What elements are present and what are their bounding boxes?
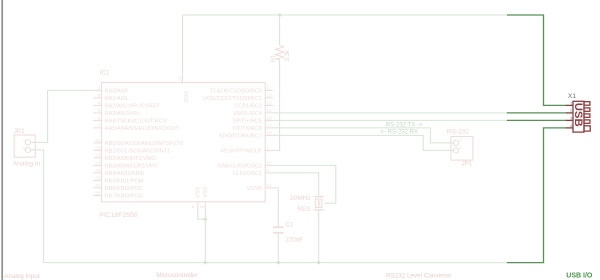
svg-text:3: 3 (570, 116, 573, 121)
wire ground rail (faded) (44, 262, 508, 264)
svg-text:PIC18F2550: PIC18F2550 (99, 212, 137, 219)
junction R1 top (278, 13, 281, 16)
connector JP1 body (451, 137, 473, 161)
wire VDD top rail (faded) (183, 14, 508, 16)
svg-text:22: 22 (95, 145, 101, 150)
svg-text:RS232 Level Converter: RS232 Level Converter (386, 273, 451, 280)
IC1 VSS pin 19 stub (bottom) (204, 202, 206, 210)
svg-text:19: 19 (199, 204, 205, 209)
svg-text:<- RS-232 RX: <- RS-232 RX (380, 130, 418, 136)
wire RC4 / D- (faded) (273, 112, 508, 114)
svg-text:VSS: VSS (203, 186, 209, 197)
X1 shield teeth (584, 102, 590, 106)
svg-text:USB: USB (572, 103, 584, 127)
X1 pin numbers (570, 101, 573, 128)
svg-text:12: 12 (266, 93, 272, 98)
svg-text:T13CKI/T1OSO/RC0: T13CKI/T1OSO/RC0 (210, 88, 262, 94)
svg-text:RA1/AN1: RA1/AN1 (105, 96, 128, 102)
svg-text:VM/D-/RC4: VM/D-/RC4 (233, 111, 262, 117)
X1 pin stubs (566, 104, 573, 106)
svg-text:8: 8 (192, 204, 195, 209)
svg-text:14: 14 (266, 183, 272, 188)
wire JP2 pin2 to ground rail (31, 150, 44, 263)
svg-text:RB3/AN9/CCP2/VPO: RB3/AN9/CCP2/VPO (105, 163, 159, 169)
svg-text:2: 2 (459, 138, 462, 143)
svg-text:R1: R1 (271, 54, 277, 62)
svg-text:RES: RES (297, 206, 311, 213)
IC1 VDD pin 20 stub (top) (182, 75, 184, 83)
svg-text:RB5/KBI1/PGM: RB5/KBI1/PGM (105, 178, 144, 184)
JP1 pin 2 pad circle (454, 140, 459, 145)
wire IC1 VSS pins to ground rail (198, 209, 206, 219)
svg-text:18: 18 (266, 130, 272, 135)
junction VSS to ground rail (204, 261, 207, 264)
svg-text:5: 5 (98, 108, 101, 113)
svg-text:1: 1 (266, 145, 269, 150)
svg-text:28: 28 (95, 190, 101, 195)
IC1 pin numbers (95, 76, 272, 209)
wire R1 to IC1 MCLR pin1 (273, 60, 280, 151)
window border left edge (1, 0, 3, 280)
resistor R1 zigzag (276, 45, 284, 60)
svg-text:RB7/KBI3/PGD: RB7/KBI3/PGD (105, 193, 143, 199)
svg-text:4: 4 (570, 123, 573, 128)
IC1 left pin stubs (pins 2-7, 21-28) (94, 90, 102, 195)
svg-text:RA3/AN3/VR+: RA3/AN3/VR+ (105, 111, 141, 117)
svg-text:VDD: VDD (182, 91, 188, 103)
svg-text:VUSB: VUSB (247, 186, 263, 192)
svg-text:9: 9 (266, 168, 269, 173)
svg-text:RB6/KBI2/PGC: RB6/KBI2/PGC (105, 186, 143, 192)
svg-text:RA2/AN2/VR-/CVREF: RA2/AN2/VR-/CVREF (105, 103, 161, 109)
svg-text:IC1: IC1 (100, 70, 110, 77)
svg-text:17: 17 (266, 123, 272, 128)
svg-text:3: 3 (98, 93, 101, 98)
junction resonator ground (317, 261, 320, 264)
op IC1 PIC18F2550 body (101, 83, 265, 202)
wire IC1 VUSB pin14 to C1 (273, 188, 278, 226)
wire D- to X1 pin2 (highlighted) (508, 112, 566, 114)
svg-text:26: 26 (95, 175, 101, 180)
svg-text:RA5/AN4/SS/HLVDIN/C2OUT: RA5/AN4/SS/HLVDIN/C2OUT (105, 126, 180, 132)
svg-text:Analog In: Analog In (13, 160, 41, 167)
svg-text:VSS: VSS (196, 186, 202, 197)
svg-text:RA0/AN0: RA0/AN0 (105, 88, 128, 94)
svg-text:RA6/CLKO/OSC2: RA6/CLKO/OSC2 (218, 163, 262, 169)
wire IC1 pin20 up to VDD rail (182, 15, 184, 75)
JP2 pin 1 pad circle (25, 140, 30, 145)
wire JP2 pin1 to IC1 RA0 (31, 90, 94, 142)
svg-text:CK/TX/RC6: CK/TX/RC6 (233, 126, 262, 132)
svg-text:RB2/AN8/INT2/VMO: RB2/AN8/INT2/VMO (105, 156, 157, 162)
svg-text:6: 6 (98, 115, 101, 120)
connector JP2 body (14, 135, 35, 157)
svg-text:SDO/DT/RX/RC7: SDO/DT/RX/RC7 (219, 133, 262, 139)
wire resonator center to ground rail (318, 210, 320, 263)
svg-text:1: 1 (23, 138, 26, 143)
JP2 pin 2 pad circle (25, 147, 30, 152)
IC1 pin name labels (105, 88, 263, 199)
svg-text:JP2: JP2 (14, 128, 25, 135)
wire C1 to ground rail (277, 234, 279, 263)
wire VDD rail to R1 (279, 15, 281, 45)
svg-text:Microcontroller: Microcontroller (156, 272, 197, 279)
svg-text:1: 1 (570, 101, 573, 106)
svg-text:27: 27 (95, 183, 101, 188)
svg-text:USB I/O: USB I/O (566, 273, 593, 280)
wire D+ to X1 pin3 (highlighted) (508, 119, 566, 121)
svg-text:23: 23 (95, 153, 101, 158)
IC1 right pin stubs (pins 11-18, 1, 10, 9, 14) (265, 90, 273, 187)
IC1 VSS pin 8 stub (bottom) (197, 202, 199, 210)
svg-text:VP/D+/RC5: VP/D+/RC5 (233, 118, 262, 124)
svg-text:C1: C1 (286, 221, 294, 228)
svg-text:21: 21 (95, 138, 101, 143)
svg-text:10: 10 (266, 160, 272, 165)
junction VSS wires (204, 218, 207, 221)
svg-text:4: 4 (98, 100, 101, 105)
junction C1 ground (277, 261, 280, 264)
svg-text:CLKI/OSC1: CLKI/OSC1 (233, 171, 262, 177)
JP1 pin 1 pad circle (454, 148, 459, 153)
resonator Q1 symbol (314, 197, 324, 210)
svg-text:2: 2 (570, 108, 573, 113)
wire IC1 OSC1 to resonator (273, 173, 319, 196)
wire RC5 / D+ (faded) (273, 119, 508, 121)
svg-text:1: 1 (459, 145, 462, 150)
svg-text:20MHz: 20MHz (290, 195, 311, 202)
svg-text:RE3/VPP/MCLR: RE3/VPP/MCLR (221, 148, 262, 154)
svg-text:Analog Input: Analog Input (4, 273, 40, 280)
svg-text:X1: X1 (568, 93, 577, 100)
svg-text:24: 24 (95, 160, 101, 165)
svg-text:20: 20 (177, 76, 182, 82)
svg-text:JP1: JP1 (462, 160, 473, 167)
wire RC7 RX to JP1 pin1 (273, 135, 454, 150)
wire RC6 TX to JP1 pin2 (273, 128, 454, 143)
svg-text:220nF: 220nF (286, 237, 304, 244)
svg-text:RS-232: RS-232 (447, 128, 469, 135)
svg-text:RB1/SCL/SCK/AN10/INT1: RB1/SCL/SCK/AN10/INT1 (105, 148, 171, 154)
svg-text:25: 25 (95, 168, 101, 173)
svg-text:CCP1/RC2: CCP1/RC2 (234, 103, 262, 109)
capacitor C1 plates (273, 226, 284, 228)
svg-text:2: 2 (98, 85, 101, 90)
svg-text:RB0/SDA/SDI/AN12/INT0/FLT0: RB0/SDA/SDI/AN12/INT0/FLT0 (105, 141, 183, 147)
svg-text:RS-232 TX ->: RS-232 TX -> (386, 122, 423, 128)
svg-text:15: 15 (266, 108, 272, 113)
svg-text:3.3k: 3.3k (285, 49, 291, 61)
svg-text:16: 16 (266, 115, 272, 120)
svg-text:RB4/AN11/KBI0: RB4/AN11/KBI0 (105, 171, 145, 177)
wire IC1 OSC2 to resonator (273, 165, 336, 203)
svg-text:UOE/CCP2/T1OSI/RC1: UOE/CCP2/T1OSI/RC1 (203, 96, 262, 102)
svg-text:RA4/T0CKI/C1OUT/RCV: RA4/T0CKI/C1OUT/RCV (105, 118, 167, 124)
X1 body (573, 101, 584, 132)
svg-text:7: 7 (98, 123, 101, 128)
wire GND: X1 pin4 to ground rail (highlighted) (508, 128, 566, 263)
svg-text:11: 11 (266, 85, 271, 90)
wire VBUS: rail to X1 pin1 (highlighted) (508, 15, 566, 105)
svg-text:13: 13 (266, 100, 272, 105)
svg-text:2: 2 (23, 145, 26, 150)
